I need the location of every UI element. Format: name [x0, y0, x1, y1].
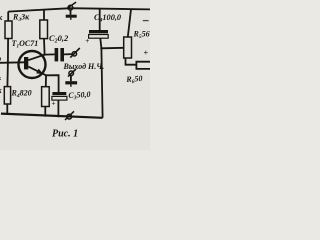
- wire lower-left resistor top: [6, 62, 9, 86]
- node base junction: [7, 61, 9, 63]
- node C4 tap: [100, 47, 102, 49]
- node collector: [43, 53, 45, 55]
- jack X1 output circle: [72, 52, 76, 56]
- label minus top right: [143, 20, 149, 22]
- capacitor C2 plate right: [60, 48, 64, 61]
- wire emitter to R4: [45, 75, 47, 86]
- jack X2 circle: [69, 71, 74, 76]
- ground stem top: [70, 10, 72, 15]
- transistor Q1 collector line: [28, 55, 44, 61]
- wire bottom rail: [1, 114, 103, 118]
- paper noise: [0, 0, 1, 1]
- ground bar top: [66, 15, 77, 18]
- resistor R4: [42, 87, 50, 107]
- wire R5 top: [128, 9, 131, 37]
- wire R2 top: [7, 12, 9, 21]
- jack X3 on bottom rail: [67, 114, 72, 119]
- wire top supply rail: [8, 8, 150, 11]
- capacitor C3 plate top: [52, 92, 66, 95]
- node R4 bottom: [44, 114, 46, 116]
- jack X2 tick: [68, 69, 76, 77]
- transistor Q1 base bar: [24, 57, 28, 69]
- resistor R3: [40, 20, 48, 39]
- capacitor C3 plate bottom: [52, 96, 67, 100]
- transistor Q1 emitter arrow: [36, 69, 43, 75]
- jack on top rail circle: [68, 5, 73, 10]
- wire collector to C2: [45, 53, 55, 55]
- wire R2 bottom: [7, 39, 9, 63]
- capacitor C4 plate top: [89, 30, 108, 33]
- node C3 bottom: [57, 115, 59, 117]
- resistor R5: [124, 37, 132, 58]
- jack X1 tick: [70, 48, 80, 58]
- wire lower-left resistor bottom: [6, 104, 8, 114]
- transistor Q1 circle: [19, 51, 46, 78]
- wire R5 bottom to R6: [126, 58, 137, 65]
- wire base input: [0, 61, 24, 64]
- capacitor C2 plate left: [55, 48, 59, 61]
- wire emitter corner to C3: [46, 75, 59, 92]
- transistor Q1 emitter line: [28, 67, 46, 76]
- wire C3 bottom: [57, 100, 59, 117]
- wire R3 bottom to collector node: [43, 39, 46, 55]
- jack X2 ground stem: [70, 76, 72, 82]
- jack top tick: [66, 2, 76, 9]
- resistor R1 (left, cut label): [4, 87, 10, 104]
- wire C4 tap to R5: [101, 47, 123, 50]
- ground bar X2: [65, 81, 77, 84]
- ground stub X2: [70, 84, 72, 86]
- resistor R2: [5, 21, 12, 39]
- jack X3 slash: [65, 111, 74, 120]
- wire C4 column: [100, 9, 103, 118]
- wire R3 top: [43, 11, 45, 21]
- resistor R6 (cut at edge): [136, 62, 150, 69]
- ground stub top: [70, 18, 72, 20]
- capacitor C4 plate bottom: [89, 35, 109, 39]
- wire R4 bottom: [44, 107, 46, 117]
- wire C2 to jack: [64, 53, 72, 55]
